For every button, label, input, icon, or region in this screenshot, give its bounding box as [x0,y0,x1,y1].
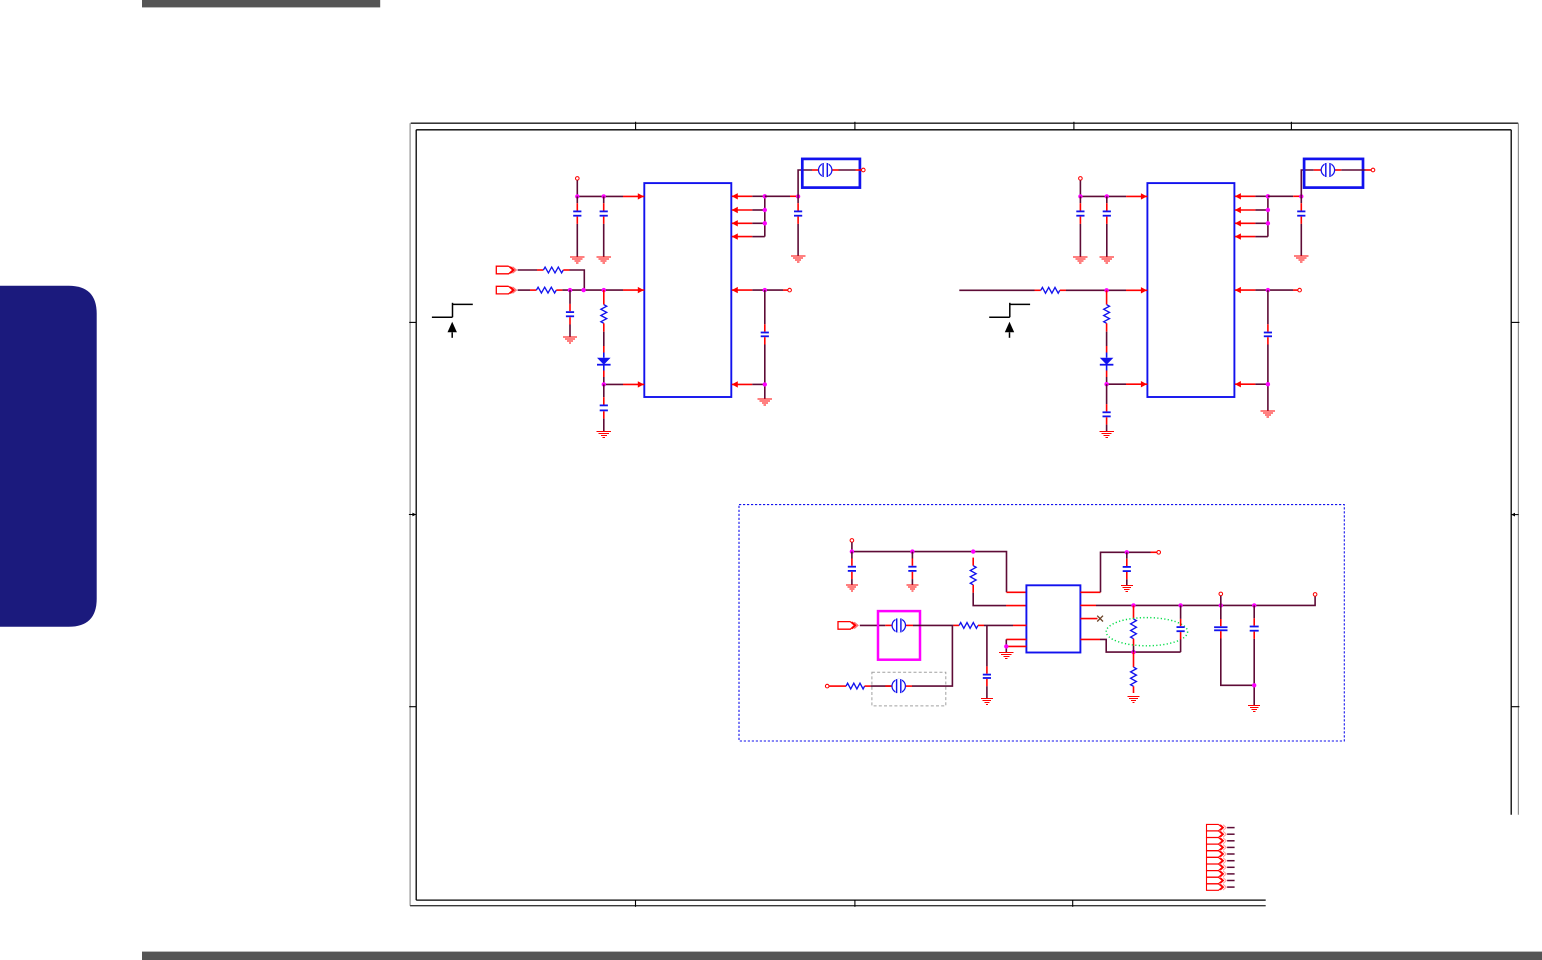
diode D1 [597,353,611,371]
port MIC-IN [838,622,858,630]
resistor R9 [1131,605,1137,645]
resistor R8 [840,683,871,689]
wire node B row [604,383,623,385]
wire R9 to node [1133,646,1135,652]
capacitor C8 [1103,196,1111,257]
wire J1 feed [798,170,812,196]
wire X1 leads [885,624,913,626]
green highlight ellipse [1106,618,1187,646]
port IN1- [496,286,516,294]
node VMIC-C13 [910,549,914,553]
node OUT2 tie 1 [1266,194,1270,198]
wire C16 to AGND row [1180,645,1182,652]
node AOUT-R9 [1131,603,1135,607]
terminal J1 out [862,168,866,172]
node VCC2-C7 [1078,194,1082,198]
capacitor C15 [1123,552,1131,585]
sheet outer border [410,123,1518,906]
wire D1 to node B [603,377,605,384]
node C17-C18 [1252,683,1256,687]
pin U3 OUT [1080,591,1100,593]
node J2 [1299,194,1303,198]
wire U1 input row [562,289,623,291]
node OUT tie 2 [763,208,767,212]
capacitor C2 [600,196,608,257]
wire J2 feed [1301,170,1314,196]
node OUT2 tie 3 [1266,221,1270,225]
node VCC1-C2 [602,194,606,198]
IC U2 [1147,183,1234,397]
wire C18 bottom [1253,646,1255,705]
wire OUT2 to jack J2 [1268,195,1301,197]
node REF2 [1266,382,1270,386]
resistor R3 [601,290,607,332]
wire R4 to node C [1066,289,1126,291]
pin U2 LINEOUT [1235,287,1256,293]
microphone element X2 [892,679,905,694]
ground C12 [846,585,858,591]
node U3 gnd [1004,644,1008,648]
ground U3 [999,653,1013,659]
wire VMIC rail [852,552,1007,593]
wire inside J1 [812,169,861,171]
connector CN1 port stack [1207,824,1235,890]
wire REF node [752,384,765,398]
dashed enclosure microphone circuit [739,505,1344,741]
pin U2 OUT2 [1235,207,1256,213]
node AOUT-C17 [1219,603,1223,607]
node VCC1-C1 [575,194,579,198]
resistor R1 [537,267,570,273]
wire LINEOUT2 [1255,289,1297,291]
ground C9 [1099,432,1113,438]
capacitor C13 [908,552,916,586]
node D [1104,382,1108,386]
wire U3 OUT up [1101,552,1120,592]
no-connect X mark [1097,616,1103,622]
pin U3 AGND [1080,638,1100,640]
ground REF [758,399,772,405]
node AOUT-C16 [1178,603,1182,607]
node A merge [581,288,585,292]
ground C4 [597,432,611,438]
ground C3 [563,337,577,343]
sheet inner border [416,130,1511,900]
node OUT tie 3 [763,221,767,225]
ground C5 [791,256,805,262]
ground R10 [1128,697,1140,703]
resistor R2 [530,287,562,293]
frame mid marker right [1511,513,1518,517]
wire AGND loop [1100,639,1181,652]
ground C15 [1121,586,1133,592]
node J1 [796,194,800,198]
wire U2 input net [959,289,1034,291]
resistor R10 [1131,652,1137,693]
pin U1 OUT2 [732,207,753,213]
capacitor C7 [1076,196,1084,257]
pin U2 IN [1126,287,1147,293]
microphone element X1 [892,618,905,633]
pin U3 NC [1080,618,1097,620]
edge trigger symbol left [432,303,473,338]
capacitor C6 [761,290,769,384]
node VMIC-R6 [971,549,975,553]
ground C1 [570,257,584,263]
wire D2 to node D [1106,377,1108,384]
jack box J1 [802,159,860,188]
page footer bar [142,952,1542,960]
pin U1 VDD [623,193,644,199]
mic highlight box [878,611,920,660]
ground C14 [981,698,993,704]
capacitor C1 [573,196,581,257]
terminal AOUT [1313,593,1317,597]
wire R6 to U3 [973,593,1006,606]
resistor R5 [1104,290,1110,331]
page header bar [142,0,380,7]
ground C8 [1100,257,1114,263]
wire R1 to node A [570,270,585,290]
wire VCC2 stub [1079,180,1081,196]
node A-R3 [602,288,606,292]
ground C7 [1073,257,1087,263]
wire node D row [1107,383,1126,385]
terminal LINEOUT2 [1298,288,1302,292]
pin U3 GND A [1006,638,1026,640]
node LINEOUT2 [1266,288,1270,292]
IC U3 [1026,585,1080,652]
wire OUT rail [1119,551,1157,553]
frame mid marker left [409,513,416,517]
wire X2 leads [871,685,912,687]
power terminal VMIC [850,539,854,543]
pin U3 GND B [1006,645,1026,647]
pin U2 OUT3 [1235,220,1256,226]
diode D2 [1100,353,1114,371]
wire REF2 node [1255,384,1268,411]
wire U2 power rail [1080,195,1126,197]
wire MIC2 lead [829,685,840,687]
pin U3 AOUT [1080,604,1096,606]
wire MIC to X1 [860,624,886,626]
wire X2 up to mic net [912,625,952,686]
capacitor C5 [794,196,802,256]
node OUT tie 1 [763,194,767,198]
capacitor C11 [1264,290,1272,384]
resistor R6 [970,558,976,593]
ground C13 [906,585,918,591]
pin U1 OUT3 [732,220,753,226]
capacitor C17 [1214,605,1227,647]
frame zone ticks [409,122,1519,907]
ground C2 [597,257,611,263]
node C [1104,288,1108,292]
capacitor C18 [1250,605,1259,646]
terminal J2 out [1371,168,1375,172]
pin U1 IN [623,287,644,293]
capacitor C10 [1297,196,1305,256]
wire U1 power rail [577,195,623,197]
terminal AOUT tap [1219,592,1223,596]
wire LINEOUT [752,289,787,291]
node LINEOUT [763,288,767,292]
wire IN1- to R2 [518,289,530,291]
capacitor C16 [1177,605,1185,645]
node B [602,382,606,386]
optional mic dashed box [872,672,946,706]
pin U2 BYP [1126,381,1147,387]
pin U1 OUT1 [732,193,753,199]
terminal MICOUT [1157,551,1161,555]
IC U1 [644,183,731,397]
capacitor C4 [600,384,608,431]
node REF [763,382,767,386]
wire VMIC stub [851,542,853,551]
terminal LINEOUT [788,288,792,292]
node A-C3 [568,288,572,292]
pin U3 BIAS [1006,605,1026,607]
node OUT2 tie 2 [1266,208,1270,212]
transducer element J1 [819,163,832,178]
node R9-R10 [1131,650,1135,654]
wire R5 to D2 [1106,332,1108,346]
pin U2 REF [1235,381,1256,387]
pin U1 REF [732,381,753,387]
transducer element J2 [1321,163,1334,178]
pin U3 VDD [1007,591,1027,593]
wire AOUT rail [1096,596,1315,605]
wire U1 output tie [752,196,765,236]
capacitor C9 [1103,384,1111,431]
resistor R7 [953,623,984,629]
power terminal VCC2 [1079,177,1083,181]
wire OUT to jack J1 [765,195,798,197]
power terminal VCC1 [576,177,580,181]
node MICOUT [1125,550,1129,554]
wire X1 to U3 [913,624,953,626]
left navigation tab [0,286,97,627]
node VMIC-C12 [850,549,854,553]
wire U2 output tie [1255,196,1268,236]
pin U1 OUT4 [732,233,753,239]
wire IN1+ to R1 [518,269,537,271]
wire C17 bottom loop [1221,647,1254,685]
wire inside J2 [1314,169,1371,171]
jack box J2 [1304,159,1363,188]
wire U3 ground loop [1005,639,1007,652]
node VCC2-C8 [1105,194,1109,198]
capacitor C14 [983,625,991,698]
wire VCC1 stub [576,180,578,196]
pin U2 OUT4 [1235,233,1256,239]
wire R3 to D1 [603,332,605,346]
wire R7 to U3 [984,624,1026,626]
ground C18 [1248,705,1260,711]
wire AOUT tap stub [1220,596,1222,606]
ground REF2 [1261,411,1275,417]
terminal MIC2-IN [825,684,829,688]
pin U1 BYP [623,381,644,387]
resistor R4 [1035,287,1067,293]
pin U1 LINEOUT [732,287,753,293]
edge trigger symbol right [989,303,1030,338]
capacitor C3 [566,290,574,337]
ground C10 [1294,256,1308,262]
pin U2 OUT1 [1235,193,1256,199]
node AOUT-C18 [1252,603,1256,607]
capacitor C12 [848,552,856,586]
pin U2 VDD [1126,193,1147,199]
port IN1+ [496,266,516,274]
